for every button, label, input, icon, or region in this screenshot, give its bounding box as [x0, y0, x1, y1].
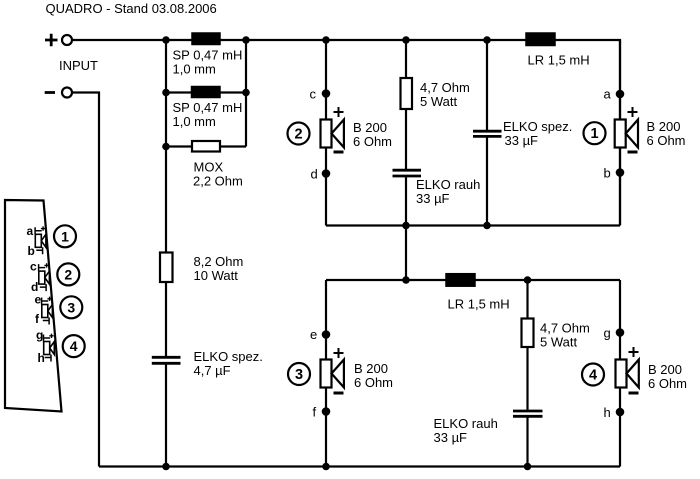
wire: speaker3 branch vertical [325, 280, 327, 467]
svg-text:4,7 Ohm: 4,7 Ohm [420, 80, 470, 95]
wire: row2 right [220, 91, 246, 93]
wire: top bus to middle branch [326, 39, 406, 41]
svg-text:f: f [313, 405, 317, 420]
svg-text:3: 3 [295, 367, 303, 383]
svg-text:a: a [27, 224, 34, 238]
svg-text:4: 4 [70, 338, 78, 354]
node B junction [242, 36, 250, 44]
svg-text:B 200: B 200 [647, 119, 681, 134]
capacitor ELKO rauh 33 uF (bottom) [513, 411, 543, 416]
box circled 1 [54, 225, 76, 247]
junction lower bus x406 [402, 276, 410, 284]
svg-text:B 200: B 200 [353, 120, 387, 135]
wire: speaker2 branch vertical [325, 40, 327, 226]
wire: lower top bus [326, 279, 446, 281]
node c [322, 89, 331, 98]
svg-text:MOX: MOX [194, 160, 224, 175]
wire: left rail of parallel group [165, 40, 167, 147]
wire: resistor to cap [526, 347, 528, 410]
box speaker 4 [44, 334, 55, 362]
junction left rail row3 [162, 143, 170, 151]
speaker cabinet box [5, 200, 62, 412]
box circled 4 [63, 335, 85, 357]
junction left rail row2 [162, 89, 170, 97]
svg-text:INPUT: INPUT [59, 58, 98, 73]
box speaker 2 [39, 263, 50, 291]
svg-text:33 µF: 33 µF [434, 430, 468, 445]
junction lower bus x527 [524, 276, 532, 284]
node b [616, 168, 625, 177]
wire: minus terminal to left drop [73, 93, 99, 467]
speaker U2 B 200 [321, 107, 344, 152]
box speaker 3 [42, 297, 53, 325]
junction bus x406 [402, 222, 410, 230]
junction bus x487 [483, 222, 491, 230]
capacitor ELKO spez. 4,7 uF [152, 357, 181, 363]
node top of RC branch [402, 36, 410, 44]
wire: RC branch down to resistor [405, 40, 407, 78]
wire: L1 to node B [220, 39, 246, 41]
svg-text:1: 1 [590, 126, 598, 142]
svg-text:2: 2 [294, 126, 302, 142]
svg-text:6 Ohm: 6 Ohm [353, 134, 392, 149]
wire: LR to top-right corner and down [555, 40, 620, 226]
svg-text:LR 1,5 mH: LR 1,5 mH [448, 297, 510, 312]
node g [616, 328, 625, 337]
wire: ELKO spez branch down [486, 40, 488, 130]
wire: speaker1 branch vertical [619, 40, 621, 226]
svg-text:3: 3 [67, 299, 75, 315]
svg-text:6 Ohm: 6 Ohm [648, 376, 687, 391]
svg-text:4: 4 [589, 367, 597, 383]
svg-text:1,0 mm: 1,0 mm [173, 114, 216, 129]
resistor 8,2 Ohm 10 Watt [160, 253, 173, 283]
inductor SP 0,47 mH (parallel) [192, 87, 221, 98]
wire: top bus node B to speaker2 branch [246, 39, 326, 41]
wire: bottom bus [99, 465, 620, 467]
box circled 2 [57, 263, 79, 285]
svg-text:e: e [35, 293, 42, 307]
node h [616, 408, 625, 417]
inductor SP 0,47 mH (series) [192, 33, 220, 45]
wire: capacitor to bottom bus [165, 365, 167, 467]
circled 4 [582, 364, 604, 386]
svg-text:5 Watt: 5 Watt [420, 94, 457, 109]
wire: speaker4 branch vertical [619, 280, 621, 467]
junction bottom bus x166 [162, 463, 170, 471]
svg-text:5 Watt: 5 Watt [540, 335, 577, 350]
circled 2 [288, 123, 310, 145]
svg-text:h: h [38, 351, 45, 365]
capacitor ELKO rauh 33 uF (top) [393, 170, 422, 176]
svg-text:SP 0,47 mH: SP 0,47 mH [173, 48, 243, 63]
svg-text:B 200: B 200 [354, 361, 388, 376]
svg-text:c: c [30, 260, 37, 274]
svg-text:1,0 mm: 1,0 mm [173, 62, 216, 77]
svg-text:B 200: B 200 [648, 362, 682, 377]
node e [322, 330, 331, 339]
inductor LR 1,5 mH (bottom) [446, 274, 475, 287]
wire: resistor to ELKO rauh [405, 109, 407, 169]
wire: LR to right corner [475, 279, 620, 281]
wire: cap to bottom bus [526, 418, 528, 467]
svg-text:ELKO spez.: ELKO spez. [194, 349, 263, 364]
node f [322, 407, 331, 416]
wire: top bus to LR inductor [487, 39, 526, 41]
speaker U3 B 200 [321, 348, 344, 393]
inductor LR 1,5 mH (top) [526, 33, 555, 46]
svg-text:6 Ohm: 6 Ohm [354, 375, 393, 390]
svg-text:33 µF: 33 µF [505, 133, 539, 148]
svg-text:g: g [36, 328, 43, 342]
svg-text:a: a [604, 86, 612, 101]
svg-text:8,2 Ohm: 8,2 Ohm [194, 254, 244, 269]
node top of speaker2 branch [322, 36, 330, 44]
svg-text:6 Ohm: 6 Ohm [647, 133, 686, 148]
box circled 3 [60, 296, 82, 318]
junction bottom bus x326 [322, 463, 330, 471]
speaker U1 B 200 [615, 107, 638, 152]
node d [322, 169, 331, 178]
svg-text:b: b [604, 165, 611, 180]
svg-text:2,2 Ohm: 2,2 Ohm [193, 174, 243, 189]
capacitor ELKO spez. 33 uF [473, 131, 502, 136]
node A junction [162, 36, 170, 44]
wire: cap down to bus [486, 138, 488, 226]
wire: left rail down to resistor [165, 147, 167, 253]
svg-text:ELKO rauh: ELKO rauh [416, 177, 480, 192]
resistor MOX 2,2 Ohm [192, 141, 220, 152]
svg-text:QUADRO - Stand 03.08.2006: QUADRO - Stand 03.08.2006 [46, 1, 217, 16]
svg-text:d: d [311, 166, 318, 181]
plus input terminal [45, 34, 72, 46]
svg-text:ELKO rauh: ELKO rauh [434, 416, 498, 431]
svg-text:4,7 Ohm: 4,7 Ohm [540, 321, 590, 336]
junction bottom bus x527 [524, 463, 532, 471]
svg-text:h: h [604, 405, 611, 420]
wire: bottom bus of top section [326, 224, 620, 226]
svg-text:10 Watt: 10 Watt [194, 268, 239, 283]
speaker U4 B 200 [616, 347, 639, 393]
svg-text:2: 2 [64, 266, 72, 282]
wire: lower RC branch down [526, 280, 528, 319]
wire: plus terminal to node A [73, 39, 166, 41]
svg-text:1: 1 [61, 228, 69, 244]
svg-text:c: c [310, 86, 317, 101]
minus input terminal [45, 88, 72, 98]
wire: top bus to cap branch [406, 39, 487, 41]
wire: row3 right [220, 145, 246, 147]
svg-text:b: b [28, 244, 35, 258]
node a [616, 90, 625, 99]
resistor 4,7 Ohm 5 Watt (bottom) [522, 319, 534, 348]
circled 3 [288, 363, 310, 385]
svg-text:33 µF: 33 µF [416, 191, 450, 206]
wire: cap to bottom bus of top section [405, 177, 407, 225]
wire: resistor to capacitor [165, 282, 167, 356]
svg-text:ELKO spez.: ELKO spez. [503, 119, 572, 134]
wire: row3 left [166, 145, 192, 147]
resistor 4,7 Ohm 5 Watt (top) [401, 78, 413, 109]
svg-text:4,7 µF: 4,7 µF [194, 363, 231, 378]
svg-text:LR 1,5 mH: LR 1,5 mH [528, 53, 590, 68]
svg-text:SP 0,47 mH: SP 0,47 mH [173, 100, 243, 115]
wire: right rail of parallel group [245, 40, 247, 147]
wire: row2 left [166, 91, 192, 93]
node top of ELKO spez branch [483, 36, 491, 44]
svg-text:g: g [604, 326, 611, 341]
junction right rail row2 [242, 89, 250, 97]
svg-text:e: e [310, 327, 317, 342]
circled 1 [584, 122, 606, 144]
box speaker 1 [35, 226, 46, 254]
wire: link to lower section [405, 226, 407, 281]
wire: node A to L1 [166, 39, 192, 41]
